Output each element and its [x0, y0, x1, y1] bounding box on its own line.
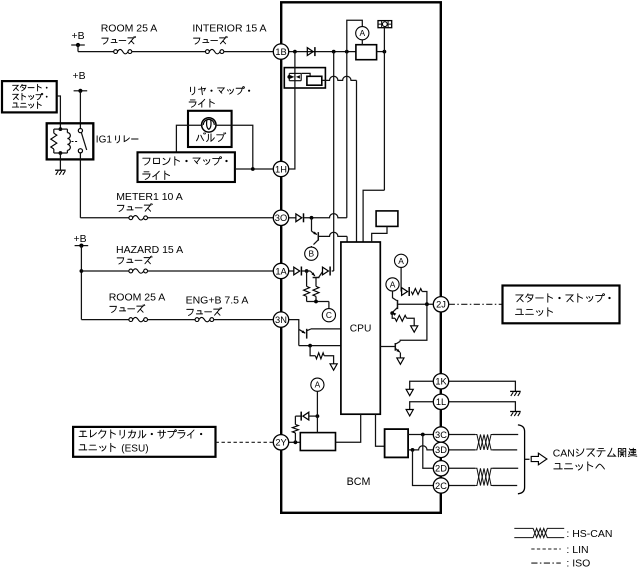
junction node 1B-C (x=346.8) [345, 50, 349, 54]
svg-text:C: C [326, 310, 332, 320]
wire 2Y to driver box [289, 441, 301, 443]
ground (signal) below Q5 [397, 358, 404, 364]
wire relay to METER1 fuse [80, 217, 128, 219]
svg-text:ROOM 25 A: ROOM 25 A [101, 23, 158, 35]
connector pin 2Y [273, 435, 288, 450]
svg-text:A: A [398, 256, 404, 266]
svg-text:HAZARD 15 A: HAZARD 15 A [116, 244, 183, 256]
label ROOM 25 A [101, 23, 158, 45]
fuse ROOM 25 A (lower) [129, 317, 148, 321]
fuse METER1 10 A [129, 216, 148, 220]
diode D5 [402, 287, 410, 296]
svg-text:IG1: IG1 [96, 135, 113, 146]
wire 3O into BCM [289, 217, 296, 219]
BCM module outline box [281, 2, 441, 513]
junction node 1B-D (x=384.4) [383, 50, 387, 54]
power +B terminal 1 label [72, 31, 85, 42]
svg-text:3N: 3N [275, 315, 287, 325]
wire Q1 collector to CPU (hop) [318, 232, 347, 242]
wire relay coil to ground [59, 153, 61, 170]
wire connector 1H up to protection box [289, 88, 295, 169]
svg-text:2J: 2J [436, 300, 446, 310]
wire 1B to block (with diode) [289, 51, 356, 53]
svg-text:1H: 1H [275, 164, 287, 174]
svg-text:(ESU): (ESU) [121, 444, 148, 455]
wire 1K left to ground [410, 381, 434, 389]
wire joining R1,R2 to node C [307, 302, 329, 309]
svg-text:+B: +B [72, 31, 85, 42]
ground (signal) below R3 [330, 364, 337, 370]
node A (top) [356, 27, 369, 40]
junction node 1B-A [293, 50, 297, 54]
diode D2 after 3O [296, 213, 304, 222]
ground (signal) below R5 [411, 326, 418, 332]
wire bulb right down to 1H wire [215, 125, 253, 169]
svg-text:B: B [309, 249, 315, 259]
svg-text:+B: +B [73, 71, 86, 82]
wire HAZARD fuse to connector 1A [148, 270, 274, 272]
wire 1B-C node up and over to node A [347, 20, 363, 51]
legend HS-CAN symbol [514, 528, 564, 537]
diode D4 after Q2 [323, 267, 331, 276]
wire CAN block to 3C [408, 434, 433, 436]
transistor Q4 (2J row) [393, 300, 434, 316]
svg-text:CAN: CAN [553, 449, 575, 460]
svg-text:ENG+B 7.5 A: ENG+B 7.5 A [186, 295, 249, 307]
svg-text:A: A [360, 28, 366, 38]
arrow to CAN system units [531, 453, 547, 465]
surge protection block at 1B [284, 52, 325, 88]
connector pin 1K [433, 374, 448, 389]
svg-text:ROOM 25 A: ROOM 25 A [109, 292, 166, 304]
wire 1A node to Q2 [302, 270, 307, 272]
connector pin 3C [433, 427, 448, 442]
ground (signal) 1K internal [406, 389, 413, 395]
junction node on 2Y wire [294, 440, 298, 444]
driver box at 2Y [300, 433, 335, 451]
wire node A to diode D5 [400, 267, 402, 291]
wire 3D node down to 2C [413, 450, 434, 486]
connector pin 1L [433, 394, 448, 409]
svg-text:3D: 3D [435, 445, 447, 455]
wire between lower fuses [148, 319, 196, 321]
wire front-map-light to connector 1H [235, 168, 273, 170]
wire 3C node down to 2D [423, 435, 434, 469]
fuse HAZARD 15 A [129, 269, 148, 273]
fuse ROOM 25 A (top row) [114, 49, 132, 53]
diode D3 after 1A [294, 267, 302, 276]
wire between fuses row 1B [132, 51, 206, 53]
wire +B to fuse ROOM 25A [78, 51, 114, 53]
resistor R2 (below Q2 base) [313, 278, 319, 302]
junction node on 3O row [310, 216, 314, 220]
svg-text:3O: 3O [275, 213, 287, 223]
resistor R3 to ground (3N) [310, 346, 334, 364]
junction node on 2J row [425, 302, 429, 306]
wire CPU bottom to CAN block [376, 414, 385, 446]
diode D1 after 1B [307, 47, 315, 56]
start-stop unit box (right) [503, 286, 620, 324]
resistor R5 to ground (Q4) [392, 313, 414, 326]
relay IG1 (coil + contact) [47, 123, 94, 159]
wire node A to Q4 [393, 291, 397, 301]
connector pin 3N [273, 312, 288, 327]
legend ISO symbol [531, 562, 561, 564]
resistor R6 (2Y pull-up) [292, 416, 301, 442]
wire 3O diode to vertical (hop) [303, 214, 346, 218]
ground (chassis) below IG1 relay coil [55, 170, 66, 175]
wire 3N lower branch to CPU [299, 345, 341, 347]
resistor R1 (below 1A node) [304, 271, 310, 302]
small block inside protection box [307, 76, 322, 85]
ISO wire 2J to start-stop unit (dash-dot) [449, 303, 503, 305]
wire fuse to connector 1B [224, 51, 273, 53]
svg-text:1B: 1B [275, 47, 286, 57]
power +B terminal 3 label [74, 234, 87, 245]
wire bulb left to front-map-light box [176, 125, 202, 152]
CAN transceiver block [385, 429, 409, 457]
svg-text:1L: 1L [436, 397, 446, 407]
wire vertical x=346.8 (1B to 3O row) [346, 52, 348, 218]
node A (bottom) [311, 378, 324, 391]
wire +B to ROOM fuse (lower) [81, 319, 128, 321]
LIN wire ESU to connector 2Y (dashed) [216, 441, 274, 443]
label CAN system units [553, 448, 637, 471]
BCM label [347, 476, 371, 488]
front map light box [138, 152, 235, 182]
block above CPU (right) [376, 211, 398, 227]
transistor Q1 (3O row) [311, 218, 318, 247]
power +B terminal 1 dot and stub [71, 43, 85, 52]
label HAZARD 15 A [116, 244, 183, 264]
connector pin 2J [433, 297, 448, 312]
label IG1 relay [96, 135, 138, 146]
connector pin 3O [273, 210, 288, 225]
junction node on 3D wire [411, 448, 415, 452]
wire CAN block to 3D (hop) [408, 446, 433, 450]
wire top-symbol down to jog [383, 28, 385, 191]
twisted pair HS-CAN 3C/3D [449, 435, 519, 450]
svg-text:2Y: 2Y [275, 438, 286, 448]
svg-text:3C: 3C [435, 430, 447, 440]
wire METER1 fuse to connector 3O [148, 217, 274, 219]
node A (right upper) [395, 254, 408, 267]
svg-text:BCM: BCM [347, 476, 371, 488]
junction node 1B-B (x=333.7) [332, 50, 336, 54]
connector pin 1B [273, 44, 288, 59]
wire 1L right to chassis ground [449, 402, 516, 411]
legend HS-CAN text [566, 528, 612, 540]
junction node on 3C wire [421, 433, 425, 437]
label rear map light [189, 87, 250, 108]
wire R4 to 2J row [422, 292, 427, 305]
wire 1A into BCM [289, 270, 294, 272]
component block on 1B line [356, 45, 377, 60]
legend LIN text [566, 544, 588, 556]
fuse ENG+B 7.5 A [195, 317, 214, 321]
legend LIN symbol [531, 548, 561, 550]
connector pin 3D [433, 442, 448, 457]
junction node +B vertical at 1A row [80, 269, 84, 273]
svg-text:METER1 10 A: METER1 10 A [116, 191, 183, 203]
svg-text:2C: 2C [435, 481, 447, 491]
svg-text:: HS-CAN: : HS-CAN [566, 528, 612, 540]
junction node at Q4 emitter [390, 311, 394, 315]
wire 1K right to chassis ground [449, 381, 516, 391]
node B [305, 247, 318, 260]
connector pin 1A [273, 263, 288, 278]
diode D6 (pointing left) [301, 412, 309, 421]
wire node A down to driver box [316, 391, 318, 432]
wire relay contact down to METER1 row [79, 153, 81, 218]
electrical supply unit (ESU) box [73, 427, 215, 457]
transistor Q2 (1A row) [307, 271, 323, 278]
power +B terminal 2 dot and stub [74, 89, 88, 129]
wire 1L left to ground [410, 402, 434, 410]
svg-text:A: A [390, 279, 396, 289]
wire jog left and down to CPU [363, 190, 384, 242]
svg-text:1A: 1A [275, 266, 287, 276]
connector pin 2D [433, 461, 448, 476]
junction node at D6 [316, 414, 320, 418]
wire 3N into BCM and down [289, 320, 299, 346]
svg-text:2D: 2D [435, 464, 447, 474]
svg-text:1K: 1K [435, 377, 447, 387]
bracket (CAN group) [518, 425, 530, 494]
transistor Q5 (below 2J) [380, 341, 400, 352]
CPU block [341, 242, 380, 414]
wire protection block output (hops) to CPU [322, 76, 357, 242]
junction node below R2 [314, 300, 318, 304]
wire zener to small block [302, 73, 311, 76]
start-stop unit box (upper left) [2, 81, 57, 112]
wire D6 to vertical [309, 415, 318, 417]
power +B terminal 3 dot and stub [75, 244, 89, 320]
legend ISO text [566, 558, 590, 570]
label ENG+B 7.5 A [186, 295, 249, 316]
label METER1 10 A [116, 191, 183, 212]
ground (signal) 1L internal [406, 410, 413, 416]
wire Q5 emitter to ground [399, 352, 401, 358]
transistor Q3 (3N row) [299, 329, 311, 339]
svg-text:: ISO: : ISO [566, 558, 590, 570]
wire node A to block top [361, 40, 363, 45]
twisted pair HS-CAN 2D/2C [449, 468, 519, 485]
fuse INTERIOR 15 A [206, 49, 224, 53]
power +B terminal 2 label [73, 71, 86, 82]
connector pin 1H [273, 161, 288, 176]
svg-text:A: A [315, 380, 321, 390]
wire driver box to CPU bottom [336, 414, 361, 442]
connector pin 2C [433, 478, 448, 493]
svg-text:: LIN: : LIN [566, 544, 588, 556]
wire 2J node down to Q5 [400, 304, 427, 341]
lamp バルブ (bulb) box [188, 111, 232, 147]
junction node on 3N branch [308, 344, 312, 348]
resistor R4 after D5 [411, 289, 422, 295]
wire start-stop unit to IG1 relay coil [57, 96, 61, 129]
wire vertical x=333.7 (1B to 1A diode) [333, 52, 335, 271]
label INTERIOR 15 A [192, 23, 266, 45]
junction node on 1H wire [251, 167, 255, 171]
svg-text:+B: +B [74, 234, 87, 245]
ground (chassis) 1L external [510, 412, 521, 417]
node C [322, 309, 335, 322]
label ROOM 25 A (lower) [109, 292, 166, 313]
wire D4 to vertical x=333.7 [332, 270, 334, 272]
connector symbol (top, to other unit) [378, 21, 392, 28]
wire block to CPU top [372, 226, 387, 242]
svg-text:INTERIOR 15 A: INTERIOR 15 A [192, 23, 266, 35]
wire ENG+B fuse to connector 3N [214, 319, 274, 321]
wire +B to HAZARD fuse [81, 270, 128, 272]
ground (chassis) 1K external [510, 391, 521, 396]
wire block to vertical x=384.4 [377, 51, 385, 53]
junction node on 1A row [305, 269, 309, 273]
svg-text:CPU: CPU [350, 323, 372, 334]
wire Q3 collector to CPU [311, 328, 341, 330]
node A (right lower) [386, 278, 399, 291]
